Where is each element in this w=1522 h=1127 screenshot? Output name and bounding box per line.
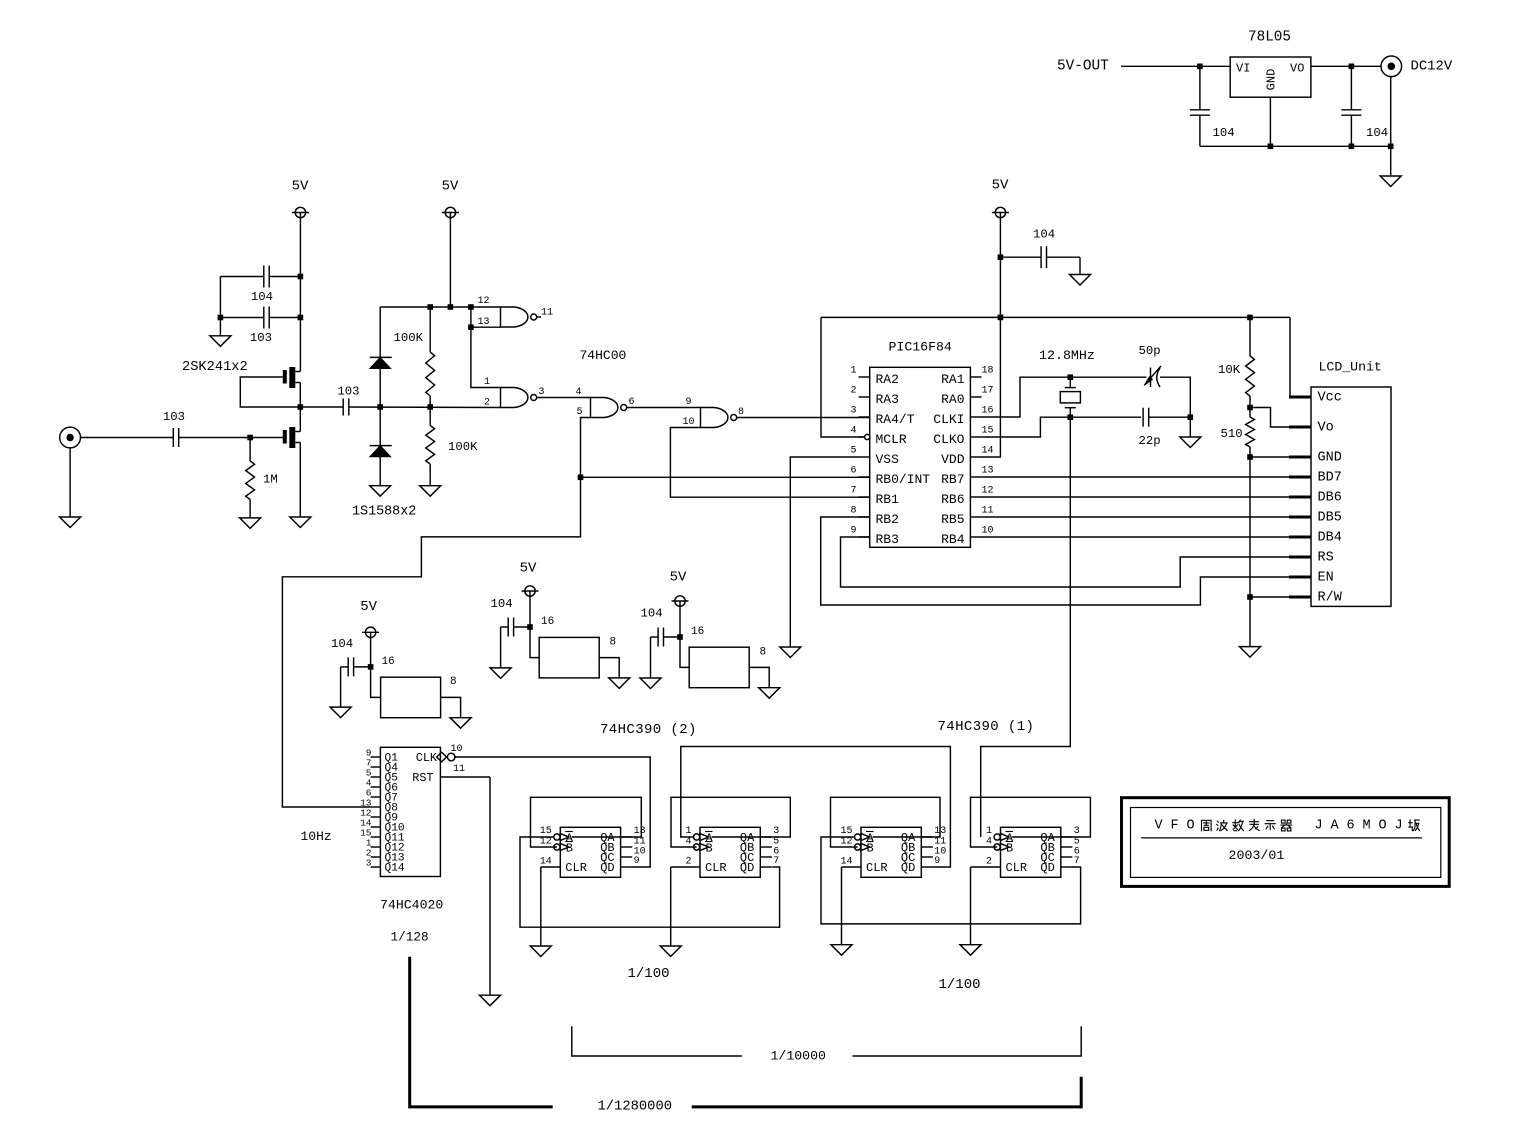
svg-text:2SK241x2: 2SK241x2	[182, 360, 248, 375]
svg-text:4: 4	[575, 387, 581, 398]
pin 1 RA2	[850, 365, 898, 387]
label 74HC4020	[380, 898, 443, 913]
wire Q8 10Hz feedback to RB0 node	[282, 477, 580, 807]
ground under R1	[240, 518, 261, 529]
wire 74HC390(2) supply cap to ground	[500, 627, 502, 668]
wire bypass caps left leg	[219, 277, 221, 336]
svg-text:8: 8	[450, 676, 457, 688]
U6b 74HC390(2) half A right pin numbers 13 11 10 9	[634, 826, 646, 867]
svg-text:2: 2	[685, 856, 691, 867]
svg-text:12: 12	[477, 296, 489, 307]
svg-text:12.8MHz: 12.8MHz	[1039, 348, 1095, 363]
LCD pin DB5	[1289, 511, 1342, 526]
ground pin8 74HC390(2) supply	[609, 678, 630, 689]
4020 RST pin 11	[412, 764, 490, 785]
wire D QD to C A (div chain 1)	[821, 837, 1081, 924]
svg-text:5V: 5V	[292, 179, 309, 195]
svg-text:4: 4	[850, 425, 856, 436]
wire VO to DC12V	[1311, 65, 1381, 67]
label 1/100 right	[939, 977, 981, 993]
svg-text:103: 103	[337, 385, 359, 399]
junction 74HC390(2) supply pin16	[527, 624, 533, 630]
4020 pin 14 Q10	[360, 818, 405, 835]
pin 5 label	[576, 407, 582, 418]
U6b 74HC390(2) half A label B	[565, 842, 573, 856]
svg-text:12: 12	[540, 837, 552, 848]
svg-text:17: 17	[982, 385, 994, 396]
title block outer box	[1122, 798, 1450, 887]
ground block B CLR	[660, 946, 681, 957]
label pin8 74HC390(1) supply	[760, 647, 767, 659]
resistor R5 510	[1221, 408, 1255, 458]
svg-text:RB3: RB3	[876, 532, 899, 547]
svg-text:1/1280000: 1/1280000	[598, 1099, 673, 1115]
wire 5V-OUT to VI	[1121, 65, 1230, 67]
svg-text:4: 4	[986, 837, 992, 848]
U6a 74HC390(2) half B label A	[705, 832, 714, 846]
junction at VO output	[1349, 64, 1355, 70]
4020 pin 15 Q11	[360, 828, 405, 845]
wire 74HC4020 supply cap to ground	[340, 667, 342, 707]
svg-text:16: 16	[541, 616, 554, 628]
svg-text:GND: GND	[1318, 451, 1342, 466]
U7a 74HC390(1) half D input A bubble	[994, 833, 1009, 841]
svg-text:5V: 5V	[360, 599, 377, 615]
title text VFO JA6MOJ (with kanji)	[1154, 818, 1419, 833]
svg-text:2: 2	[850, 385, 856, 396]
svg-text:QD: QD	[1040, 861, 1054, 875]
IC U7a 74HC390(1) half D box	[1001, 827, 1061, 877]
junction rail at gate pin12	[468, 304, 474, 310]
power 5V symbol 74HC390(1) supply	[670, 570, 689, 607]
wire RB6 to DB6	[982, 496, 1290, 498]
capacitor C4 103 coupling	[337, 385, 359, 416]
junction GND pin rail	[1268, 144, 1274, 150]
capacitor C1 103 input	[163, 410, 185, 447]
junction 1M top	[247, 435, 253, 441]
svg-text:DB4: DB4	[1318, 531, 1342, 546]
svg-text:1/128: 1/128	[391, 930, 429, 945]
LCD pin EN	[1289, 571, 1334, 586]
4020 pin 12 Q9	[360, 808, 398, 825]
IC U6b 74HC390(2) half A box	[560, 827, 620, 877]
svg-text:15: 15	[982, 425, 994, 436]
U7b 74HC390(1) half C output stubs	[921, 837, 933, 867]
label 74HC00	[580, 348, 627, 363]
U6b 74HC390(2) half A CLR stub	[541, 866, 561, 868]
svg-text:5V: 5V	[520, 561, 537, 577]
pin 8 RB2	[850, 505, 898, 527]
svg-text:9: 9	[634, 856, 640, 867]
junction output cap rail	[1349, 144, 1355, 150]
4020 pin 9 Q1	[366, 748, 398, 765]
svg-text:11: 11	[541, 308, 553, 319]
svg-text:3: 3	[539, 387, 545, 398]
svg-text:104: 104	[491, 597, 513, 611]
U6a 74HC390(2) half B left pin numbers 1 4 2	[685, 826, 691, 867]
svg-text:1S1588x2: 1S1588x2	[352, 505, 416, 520]
label pin8 74HC390(2) supply	[610, 637, 617, 649]
label 12.8MHz	[1039, 348, 1095, 363]
IC power box 74HC390(1) supply	[689, 647, 749, 688]
svg-text:2003/01: 2003/01	[1229, 848, 1285, 863]
wire 22p to ground corner	[1149, 416, 1191, 418]
junction bypass cap 104 row	[298, 274, 304, 280]
junction bypass left leg	[218, 315, 224, 321]
U7b 74HC390(1) half C label CLR	[866, 861, 888, 875]
svg-text:VO: VO	[1290, 62, 1304, 76]
svg-text:R/W: R/W	[1318, 591, 1343, 606]
wire Q1 gate loop	[240, 377, 300, 407]
label pin16 74HC390(1) supply	[691, 626, 704, 638]
U7b 74HC390(1) half C CLR stub	[842, 866, 862, 868]
svg-text:8: 8	[760, 647, 767, 659]
pin 11 RB5	[941, 505, 993, 527]
4020 pin 1 Q12	[366, 838, 405, 855]
4020 CLK pin 10	[416, 744, 463, 765]
svg-text:13: 13	[634, 826, 646, 837]
svg-text:CLR: CLR	[565, 861, 587, 875]
wire MCLR to rail	[821, 317, 865, 437]
svg-text:RA1: RA1	[941, 372, 965, 387]
IC power box 74HC390(2) supply	[539, 637, 599, 678]
junction 74HC4020 supply pin16	[368, 664, 374, 670]
wire pin13 down to pin1	[471, 307, 501, 388]
svg-text:103: 103	[163, 410, 185, 424]
svg-text:11: 11	[453, 764, 465, 775]
power 5V symbol PIC	[992, 178, 1009, 218]
4020 pin 6 Q7	[366, 788, 398, 805]
svg-text:2: 2	[484, 398, 490, 409]
LCD pin DB4	[1289, 531, 1342, 546]
svg-text:Vo: Vo	[1318, 421, 1334, 436]
wire CLKO to 74HC390(1) clock	[981, 417, 1071, 837]
pin 17 RA0	[941, 385, 993, 407]
regulator GND pin wire	[1269, 97, 1271, 146]
transistor Q2 2SK241 lower	[283, 427, 301, 448]
4020 pin 5 Q5	[366, 768, 398, 785]
junction rail 5V PIC	[998, 315, 1004, 321]
capacitor C5 104 PIC bypass	[1000, 228, 1080, 275]
svg-text:MCLR: MCLR	[876, 432, 907, 447]
svg-text:LCD_Unit: LCD_Unit	[1319, 360, 1382, 375]
U7a 74HC390(1) half D left pin numbers 1 4 2	[986, 826, 992, 867]
ground 4020 RST	[480, 995, 501, 1006]
wire R/W to ground line	[1250, 596, 1289, 598]
svg-text:B: B	[566, 842, 573, 856]
pin 10 RB4	[941, 525, 993, 547]
svg-text:RB2: RB2	[876, 512, 899, 527]
svg-text:10K: 10K	[1218, 363, 1241, 377]
U7a 74HC390(1) half D output stubs	[1061, 837, 1073, 867]
svg-text:16: 16	[691, 626, 704, 638]
capacitor C2 104 bypass	[220, 266, 300, 305]
junction at VI input	[1197, 64, 1203, 70]
svg-text:1/10000: 1/10000	[771, 1049, 826, 1064]
connector DC12V	[1381, 56, 1402, 77]
ground under diodes	[370, 486, 391, 497]
svg-text:14: 14	[540, 856, 552, 867]
nand gate U1C	[591, 398, 627, 418]
svg-text:50p: 50p	[1139, 344, 1161, 358]
svg-text:1: 1	[685, 826, 691, 837]
svg-text:V: V	[1154, 818, 1163, 833]
nand gate U1B	[501, 388, 537, 408]
ground under Q2	[290, 517, 311, 528]
svg-text:5V: 5V	[670, 570, 687, 586]
wire 5V 74HC390(2) supply down	[530, 591, 539, 658]
wire U1D output to RA4	[737, 417, 870, 419]
junction rail at 100K	[427, 304, 433, 310]
IC U7b 74HC390(1) half C box	[861, 827, 921, 877]
pin 3 RA4/T	[850, 405, 914, 427]
svg-text:Q14: Q14	[385, 863, 405, 875]
svg-text:1/100: 1/100	[939, 977, 981, 993]
pin 4 MCLR	[850, 425, 906, 447]
label 1S1588x2	[352, 505, 416, 520]
svg-text:RB1: RB1	[876, 492, 900, 507]
pin 12 label	[477, 296, 489, 307]
svg-text:104: 104	[331, 637, 353, 651]
resistor R1 1M	[246, 438, 278, 518]
pin 4 label	[575, 387, 581, 398]
junction R/W ground	[1247, 594, 1253, 600]
svg-text:CLKI: CLKI	[933, 412, 964, 427]
svg-text:DB5: DB5	[1318, 511, 1342, 526]
svg-text:100K: 100K	[448, 440, 478, 454]
bracket 1/10000	[572, 1026, 1081, 1056]
nand gate U1D	[701, 408, 737, 428]
svg-text:6: 6	[850, 465, 856, 476]
junction pin13	[468, 324, 474, 330]
wire RB5 to DB5	[982, 516, 1290, 518]
svg-text:CLR: CLR	[1006, 861, 1028, 875]
junction Q1 Q2 node	[298, 404, 304, 410]
svg-text:RST: RST	[412, 771, 433, 785]
pin 13 RB7	[941, 465, 993, 487]
wire pin8 74HC4020 supply to ground	[441, 697, 461, 717]
junction crystal top	[1068, 374, 1074, 380]
diode D1 1S1588 upper	[370, 307, 392, 407]
svg-text:10: 10	[682, 417, 694, 428]
U7b 74HC390(1) half C input B bubble	[855, 843, 870, 851]
connector J1 RF input	[60, 427, 81, 448]
ground 74HC390(2) supply cap	[490, 668, 511, 679]
wire J1 to C1	[81, 437, 174, 439]
pin 9 label	[685, 397, 691, 408]
junction diode chain top node	[377, 404, 383, 410]
svg-text:13: 13	[477, 317, 489, 328]
junction 100K lower node	[427, 404, 433, 410]
label 78L05	[1248, 30, 1291, 46]
ground block A CLR	[530, 946, 551, 957]
wire C1 to Q2 gate	[179, 437, 283, 439]
svg-text:3: 3	[850, 405, 856, 416]
svg-text:CLKO: CLKO	[933, 432, 964, 447]
label LCD_Unit	[1319, 360, 1382, 375]
svg-text:10: 10	[451, 744, 463, 755]
junction pin5 RB0	[578, 475, 584, 481]
svg-text:VDD: VDD	[941, 452, 965, 467]
label pin16 74HC390(2) supply	[541, 616, 554, 628]
label 74HC390 (1)	[938, 719, 1035, 735]
wire node to C4	[300, 406, 343, 408]
svg-text:2: 2	[986, 856, 992, 867]
junction 510 GND row	[1247, 454, 1253, 460]
U6b 74HC390(2) half A labels QA QB QC QD	[600, 831, 615, 875]
wire RB7 to BD7	[982, 476, 1290, 478]
svg-text:11: 11	[982, 505, 994, 516]
wire RB2 to EN	[821, 517, 1289, 605]
title block inner box	[1131, 808, 1441, 878]
ground pin8 74HC390(1) supply	[759, 688, 780, 699]
svg-text:510: 510	[1221, 427, 1243, 441]
label 10Hz	[301, 829, 332, 844]
wire 5V 74HC4020 supply down	[371, 632, 381, 697]
svg-text:VI: VI	[1236, 62, 1250, 76]
svg-text:J: J	[1394, 818, 1402, 833]
svg-text:PIC16F84: PIC16F84	[889, 340, 952, 355]
svg-text:RB7: RB7	[941, 472, 964, 487]
svg-text:RA2: RA2	[876, 372, 899, 387]
wire CLR ground block B	[670, 867, 672, 946]
wire U1B out to U1C pin4	[537, 397, 591, 399]
svg-text:6: 6	[629, 397, 635, 408]
svg-text:CLR: CLR	[705, 861, 727, 875]
label pin8 74HC4020 supply	[450, 676, 457, 688]
U7a 74HC390(1) half D labels QA QB QC QD	[1040, 831, 1055, 875]
svg-text:100K: 100K	[394, 331, 424, 345]
svg-text:104: 104	[1213, 126, 1235, 140]
wire U1C out to U1D pin9	[627, 407, 701, 409]
pin 18 RA1	[941, 365, 993, 387]
wire RB3 to RS	[841, 537, 1290, 587]
wire 510 down to ground	[1249, 457, 1251, 647]
U6a 74HC390(2) half B input B bubble	[694, 843, 709, 851]
svg-text:5V: 5V	[992, 178, 1009, 194]
U6a 74HC390(2) half B CLR stub	[671, 866, 700, 868]
resistor R3 100K lower	[426, 407, 478, 486]
wire DC12V down	[1390, 77, 1392, 176]
svg-text:3: 3	[366, 858, 372, 869]
svg-text:1: 1	[850, 365, 856, 376]
wire U1A output stub	[537, 316, 541, 318]
diode D2 1S1588 lower	[370, 407, 392, 486]
4020 pin 4 Q6	[366, 778, 398, 795]
label 74HC390 (2)	[600, 722, 697, 738]
label 1/1280000	[598, 1099, 673, 1115]
svg-text:1: 1	[484, 377, 490, 388]
label 1/128	[391, 930, 429, 945]
ground 74HC4020 supply cap	[330, 707, 351, 718]
svg-text:RB0/INT: RB0/INT	[876, 472, 931, 487]
title underline	[1141, 837, 1422, 839]
pin 11 label	[541, 308, 553, 319]
crystal X1 12.8MHz	[1060, 377, 1080, 417]
svg-text:QD: QD	[901, 861, 915, 875]
ground under J1	[60, 517, 81, 528]
wire 74HC390(1) supply cap to ground	[650, 637, 652, 678]
pin 8 label	[738, 407, 744, 418]
pin 9 RB3	[850, 525, 898, 547]
wire CLKI to crystal top	[982, 377, 1147, 417]
U7b 74HC390(1) half C label B	[866, 842, 874, 856]
wire trimmer to right corner	[1160, 377, 1190, 417]
resistor R2 100K upper	[394, 307, 435, 407]
svg-text:CLK: CLK	[416, 751, 438, 765]
ground DC12V	[1380, 176, 1401, 187]
pin 7 RB1	[850, 485, 899, 507]
svg-text:10: 10	[982, 525, 994, 536]
svg-text:QD: QD	[740, 861, 754, 875]
junction bypass cap 103 row	[298, 315, 304, 321]
svg-text:104: 104	[1366, 126, 1388, 140]
label PIC16F84	[889, 340, 952, 355]
svg-text:DC12V: DC12V	[1411, 58, 1453, 74]
svg-text:DB6: DB6	[1318, 491, 1342, 506]
junction rail at 5V drop	[448, 304, 454, 310]
wire VSS to ground	[790, 457, 858, 647]
svg-text:Vcc: Vcc	[1318, 391, 1342, 406]
wire J1 to ground	[69, 448, 71, 517]
label 2003/01	[1229, 848, 1285, 863]
svg-text:7: 7	[850, 485, 856, 496]
svg-text:1: 1	[986, 826, 992, 837]
wire CLR ground block C	[841, 867, 843, 945]
U6b 74HC390(2) half A input A bubble	[554, 833, 569, 841]
wire 5V down to Q1 drain	[299, 213, 301, 372]
U7b 74HC390(1) half C left pin numbers 15 12 14	[840, 826, 852, 867]
svg-text:14: 14	[840, 856, 852, 867]
svg-text:74HC4020: 74HC4020	[380, 898, 443, 913]
wire pin8 74HC390(1) supply to ground	[749, 667, 769, 687]
power 5V symbol gate stage	[442, 179, 459, 218]
svg-text:VSS: VSS	[876, 452, 900, 467]
svg-text:8: 8	[610, 637, 617, 649]
svg-text:EN: EN	[1318, 571, 1334, 586]
wire B QD to A A (div chain 3)	[520, 837, 780, 927]
pin 2 label	[484, 398, 490, 409]
svg-text:O: O	[1378, 818, 1386, 833]
wire U1D pin10 to RB1	[670, 428, 869, 498]
svg-text:14: 14	[982, 445, 994, 456]
IC power box 74HC4020 supply	[381, 677, 441, 718]
wire 5V 74HC390(1) supply down	[680, 601, 689, 667]
LCD pin DB6	[1289, 491, 1342, 506]
ground rail under 78L05	[1200, 145, 1391, 147]
capacitor C6 22p	[1139, 408, 1161, 448]
wire 5V rail upper (pins 12/13 row)	[380, 306, 500, 308]
svg-text:5: 5	[576, 407, 582, 418]
svg-text:3: 3	[1074, 826, 1080, 837]
IC U6a 74HC390(2) half B box	[700, 827, 760, 877]
ground LCD R/W	[1240, 647, 1261, 658]
svg-text:9: 9	[934, 856, 940, 867]
LCD pin Vcc	[1289, 391, 1342, 406]
ground bypass caps	[210, 336, 231, 347]
pin 5 VSS	[850, 445, 899, 467]
U6b 74HC390(2) half A input B bubble	[554, 843, 569, 851]
wire QA to B feedback block B	[671, 797, 790, 847]
wire QA to B feedback block D	[971, 797, 1091, 847]
ground crystal network	[1180, 437, 1201, 448]
U7a 74HC390(1) half D label B	[1006, 842, 1014, 856]
U6a 74HC390(2) half B output stubs	[760, 837, 772, 867]
ground block D CLR	[960, 945, 981, 956]
U6a 74HC390(2) half B input A bubble	[694, 833, 709, 841]
U6b 74HC390(2) half A label A	[565, 832, 574, 846]
junction 22p trimmer ground	[1188, 414, 1194, 420]
